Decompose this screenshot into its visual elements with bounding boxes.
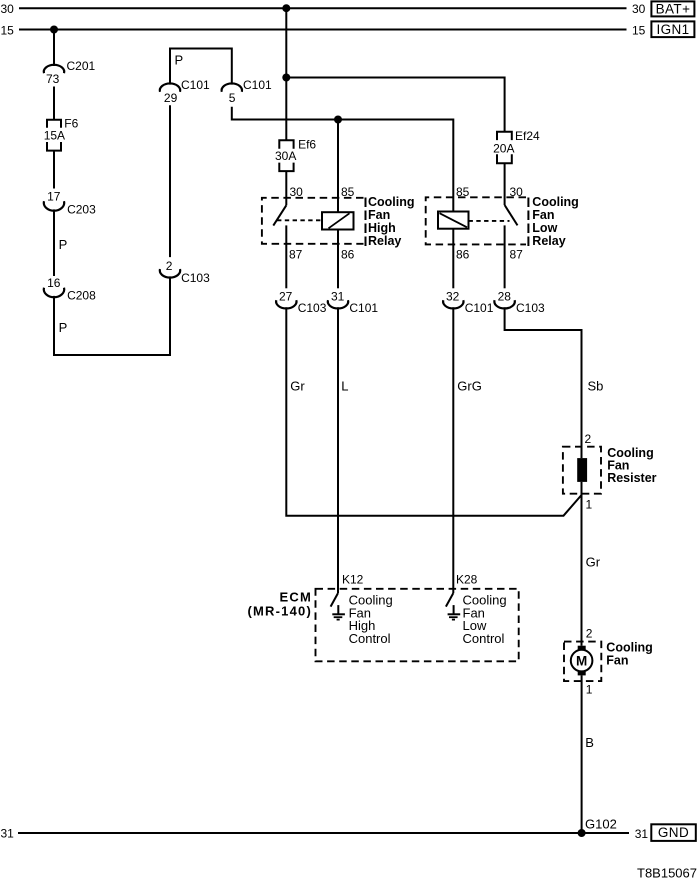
svg-text:30: 30 [510, 185, 524, 199]
svg-text:C101: C101 [181, 78, 210, 92]
svg-text:(MR-140): (MR-140) [248, 604, 313, 619]
K12 ground [337, 605, 339, 614]
svg-text:Relay: Relay [368, 234, 401, 248]
svg-text:15: 15 [632, 23, 646, 37]
wire Gr from 27 down right to resistor 1 [286, 307, 581, 515]
svg-text:1: 1 [586, 498, 593, 512]
svg-text:F6: F6 [64, 117, 78, 131]
wire GrG from 32 to ECM K28 [452, 307, 454, 593]
svg-text:C201: C201 [67, 59, 96, 73]
power IGN1 box [651, 21, 694, 37]
svg-text:C103: C103 [298, 301, 327, 315]
wire bus 15 [19, 29, 627, 31]
wire 5 down right to low relay 85 [232, 107, 453, 212]
ECM box [316, 589, 519, 662]
K28 ground [453, 605, 455, 614]
svg-text:30: 30 [632, 2, 646, 16]
svg-text:C203: C203 [67, 202, 96, 216]
svg-text:Cooling: Cooling [368, 195, 415, 209]
svg-text:31: 31 [1, 827, 15, 841]
wire Sb from 28 right and down to resistor 2 [505, 307, 582, 458]
svg-text:K12: K12 [342, 573, 364, 587]
svg-text:Sb: Sb [588, 378, 604, 393]
svg-text:P: P [175, 53, 184, 68]
wire resistor to motor, Gr [581, 482, 583, 646]
wire C208 down and right to C103, P [54, 276, 170, 355]
svg-text:Control: Control [349, 631, 391, 646]
svg-text:T8B15067: T8B15067 [637, 866, 697, 881]
wire pin 87 low relay [504, 225, 506, 288]
svg-text:85: 85 [341, 185, 355, 199]
svg-text:86: 86 [341, 248, 355, 262]
junction bus15 / left column [50, 26, 58, 34]
svg-text:20A: 20A [493, 141, 514, 155]
motor brush bottom [578, 671, 586, 676]
fuse Ef24 20A [497, 132, 512, 140]
wire pin 86 low relay [452, 229, 454, 289]
svg-text:High: High [368, 221, 396, 235]
wire bridge 29 to 5, P [170, 49, 232, 85]
coil high relay [322, 212, 354, 229]
wire C203 to C208, P [53, 209, 55, 276]
svg-text:C101: C101 [465, 301, 494, 315]
svg-text:Low: Low [532, 221, 557, 235]
relay Cooling Fan Low Relay box [426, 197, 526, 244]
svg-text:K28: K28 [456, 573, 478, 587]
wire motor to ground, B [581, 675, 583, 833]
svg-text:C101: C101 [243, 78, 272, 92]
dashed actuator link high relay [277, 219, 322, 221]
svg-text:GND: GND [658, 825, 689, 840]
K28 switch blade [446, 593, 453, 607]
svg-text:P: P [59, 237, 68, 252]
svg-text:Cooling: Cooling [606, 640, 653, 654]
svg-text:31: 31 [331, 290, 345, 304]
resistor element [577, 458, 587, 482]
svg-text:Fan: Fan [606, 654, 628, 668]
svg-text:C103: C103 [516, 301, 545, 315]
svg-text:28: 28 [498, 290, 512, 304]
power GND box [651, 824, 696, 841]
junction battery branch [282, 74, 290, 82]
svg-text:C208: C208 [67, 289, 96, 303]
svg-text:G102: G102 [585, 817, 617, 832]
svg-text:Resister: Resister [607, 471, 656, 485]
svg-text:BAT+: BAT+ [656, 2, 691, 17]
svg-text:L: L [341, 378, 348, 393]
wire L from 31 to ECM K12 [337, 307, 339, 593]
svg-text:29: 29 [164, 91, 178, 105]
motor M1 [571, 650, 593, 672]
coil low relay [438, 212, 469, 229]
fuse Ef6 30A [279, 140, 293, 149]
svg-text:ECM: ECM [280, 590, 313, 605]
motor brush top [578, 646, 586, 651]
svg-text:15: 15 [1, 23, 15, 37]
junction at 338,119.5 [334, 116, 342, 124]
svg-text:IGN1: IGN1 [656, 22, 689, 37]
dashed actuator link low relay [469, 220, 510, 222]
svg-text:87: 87 [289, 248, 303, 262]
wire C103-2 up to C101-29 [169, 105, 171, 257]
svg-text:Gr: Gr [586, 555, 601, 570]
relay Cooling Fan High Relay box [262, 198, 364, 244]
svg-text:1: 1 [586, 683, 593, 697]
junction bus30 / battery feed [282, 4, 290, 12]
svg-text:C103: C103 [181, 271, 210, 285]
svg-text:30: 30 [290, 185, 304, 199]
wire bus15 to C201 [53, 30, 55, 67]
svg-text:Control: Control [463, 631, 505, 646]
svg-text:C101: C101 [349, 301, 378, 315]
wire bus 31 ground [18, 832, 629, 834]
svg-text:2: 2 [166, 259, 173, 273]
svg-text:P: P [59, 320, 68, 335]
resistor Cooling Fan Resister box [563, 447, 601, 494]
svg-text:87: 87 [510, 248, 524, 262]
svg-text:73: 73 [46, 72, 60, 86]
svg-text:Ef24: Ef24 [515, 129, 540, 143]
wire coil 85 high relay [337, 120, 339, 213]
svg-text:GrG: GrG [457, 378, 482, 393]
svg-text:M: M [576, 654, 587, 669]
svg-text:31: 31 [635, 827, 649, 841]
wire pin 87 high relay [285, 225, 287, 288]
svg-text:17: 17 [47, 190, 61, 204]
svg-text:Fan: Fan [368, 208, 390, 222]
svg-text:16: 16 [47, 276, 61, 290]
connector C201 pin 73 [44, 65, 64, 73]
svg-text:5: 5 [229, 91, 236, 105]
wire pin 86 high relay [337, 230, 339, 289]
svg-text:Fan: Fan [532, 208, 554, 222]
svg-text:85: 85 [456, 185, 470, 199]
junction G102 [578, 829, 586, 837]
connector C101 pin 29 [160, 83, 180, 91]
low relay name separators [527, 198, 529, 247]
svg-text:27: 27 [279, 290, 293, 304]
svg-text:15A: 15A [44, 129, 65, 143]
switch blade low relay [505, 205, 518, 225]
high relay name separators [365, 198, 367, 247]
wire bus30 down to Ef6 [285, 8, 287, 140]
connector C101 pin 5 [222, 83, 242, 91]
svg-text:Relay: Relay [532, 234, 565, 248]
wire branch to Ef24 [286, 78, 504, 132]
svg-text:Cooling: Cooling [532, 195, 579, 209]
svg-text:32: 32 [446, 290, 460, 304]
wire bus 30 [19, 7, 627, 9]
switch blade high relay [273, 205, 286, 225]
K12 switch blade [331, 593, 338, 607]
svg-text:Gr: Gr [290, 378, 305, 393]
fuse F6 15A [47, 120, 61, 128]
svg-text:30: 30 [1, 2, 15, 16]
power BAT+ box [651, 1, 694, 16]
wire Ef24 to relay pin 30 [504, 163, 506, 205]
svg-text:2: 2 [586, 627, 593, 641]
svg-text:86: 86 [456, 248, 470, 262]
svg-text:30A: 30A [275, 149, 296, 163]
wire C201 to F6 [53, 87, 55, 120]
svg-text:Ef6: Ef6 [298, 138, 316, 152]
motor Cooling Fan box [564, 642, 601, 682]
wire F6 to C203 [53, 151, 55, 189]
svg-text:B: B [585, 735, 594, 750]
wire Ef6 to relay pin 30 [285, 171, 287, 205]
svg-text:2: 2 [585, 432, 592, 446]
